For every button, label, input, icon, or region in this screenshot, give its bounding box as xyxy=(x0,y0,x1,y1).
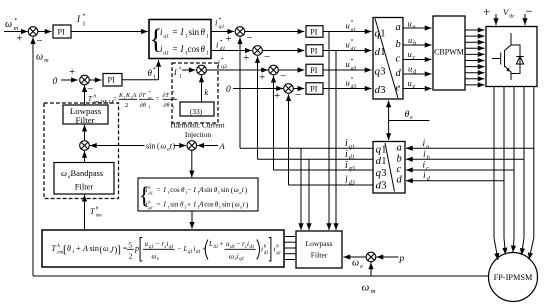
svg-text:h: h xyxy=(96,207,99,212)
svg-text:k: k xyxy=(205,87,209,97)
wire PI5 to dq block xyxy=(323,69,372,71)
svg-text:i: i xyxy=(345,149,348,160)
node omega_e label xyxy=(352,258,363,270)
wire bus line 3 LPF2 to EQT xyxy=(284,247,296,249)
label T1 d3 xyxy=(375,84,386,96)
svg-text:q1: q1 xyxy=(351,27,357,33)
svg-text:1: 1 xyxy=(83,22,86,28)
wire p to M4 xyxy=(377,256,399,258)
svg-text:*: * xyxy=(153,67,156,73)
svg-text:i: i xyxy=(345,174,348,185)
wire J5 to PI2 xyxy=(89,79,101,81)
svg-text:(33): (33) xyxy=(190,107,203,116)
wire omega_e to LPF2 xyxy=(344,256,367,258)
wire M2 down to EQH block xyxy=(191,150,193,177)
wire iq1 branch down to LPF2 xyxy=(300,148,302,230)
fraction2 numerator xyxy=(139,90,152,100)
svg-text:1: 1 xyxy=(380,29,385,40)
text EQT equation xyxy=(52,240,255,262)
svg-text:p: p xyxy=(134,244,139,253)
dashed box harmonic current injection xyxy=(172,63,218,123)
wire phase line x=494 xyxy=(494,87,498,261)
svg-text:CBPWM: CBPWM xyxy=(434,48,464,57)
svg-text:I: I xyxy=(163,201,167,209)
svg-text:*: * xyxy=(83,14,86,20)
wire ud1* branch down to LPF2 xyxy=(335,51,337,231)
wire gate signal 7 xyxy=(465,66,485,68)
wire uc to CBPWM xyxy=(403,59,432,61)
wire J2 d1 to PI xyxy=(262,50,304,52)
svg-text:cos: cos xyxy=(188,44,200,54)
svg-text:c: c xyxy=(396,54,401,65)
svg-text:+: + xyxy=(187,201,191,209)
wire J1 q1 to PI xyxy=(245,31,305,33)
block EQH harmonic current equations xyxy=(138,178,258,211)
wire phase line x=533.8 xyxy=(529,87,534,260)
svg-text:c: c xyxy=(397,164,402,175)
svg-text:1: 1 xyxy=(381,145,386,156)
summing junction J0 (speed error) xyxy=(28,27,38,37)
block Lowpass Filter 2 xyxy=(296,231,342,268)
wire J4 d3 to PI xyxy=(293,88,304,90)
fraction3 bar xyxy=(163,98,178,100)
svg-text:u: u xyxy=(346,21,350,31)
svg-text:e: e xyxy=(360,264,363,270)
svg-text:em: em xyxy=(96,214,102,219)
svg-text:1: 1 xyxy=(380,47,385,58)
svg-text:I: I xyxy=(173,68,177,77)
svg-text:I: I xyxy=(193,186,197,194)
wire 0 to J5 xyxy=(61,79,78,81)
fraction3 numerator xyxy=(163,90,176,100)
wire PI2 output horizontal xyxy=(122,79,159,81)
svg-text:=: = xyxy=(123,244,128,253)
svg-text:d1: d1 xyxy=(220,46,226,52)
svg-text:=: = xyxy=(156,95,160,103)
fraction2 denominator xyxy=(140,102,151,110)
svg-text:+: + xyxy=(76,244,81,253)
wire bus line 1 LPF2 to EQT xyxy=(284,236,296,238)
svg-text:PI: PI xyxy=(310,66,317,75)
wire bus line 2 LPF2 to EQT xyxy=(284,241,296,243)
svg-text:L: L xyxy=(183,245,188,253)
svg-text:h: h xyxy=(264,245,267,250)
label Bandpass line1 xyxy=(61,168,103,180)
label Tem_h xyxy=(90,207,102,219)
wire J0 to PI1 xyxy=(38,31,52,33)
node iq3 label xyxy=(345,160,355,172)
label T2 q3 xyxy=(376,167,387,179)
svg-text:+: + xyxy=(259,72,265,84)
svg-text:Lowpass: Lowpass xyxy=(306,239,333,248)
svg-text:Filter: Filter xyxy=(75,182,94,192)
svg-text:q1: q1 xyxy=(349,145,355,151)
svg-text:Filter: Filter xyxy=(75,115,94,125)
svg-text:*: * xyxy=(351,77,354,83)
svg-text:q1: q1 xyxy=(239,257,244,262)
svg-text:I: I xyxy=(193,201,197,209)
svg-text:3: 3 xyxy=(381,181,386,192)
stub theta_e into T2 xyxy=(388,136,390,141)
wire sin signal to M1 xyxy=(90,145,145,147)
svg-text:ω: ω xyxy=(61,168,67,178)
svg-text:I: I xyxy=(180,44,185,54)
svg-text:q1: q1 xyxy=(219,24,225,30)
wire PI6 to dq block xyxy=(323,88,372,90)
svg-text:−: − xyxy=(295,89,301,101)
svg-text:q1: q1 xyxy=(163,33,169,39)
block PI current controller 4 xyxy=(306,83,323,95)
wire id1 branch down to LPF2 xyxy=(308,159,310,230)
text EQ1 line1 xyxy=(160,27,209,39)
svg-text:1: 1 xyxy=(149,105,151,110)
wire uq1* branch down to LPF2 xyxy=(328,32,330,231)
theta_e underline xyxy=(389,120,430,122)
svg-text:i: i xyxy=(423,161,426,171)
svg-text:θ: θ xyxy=(201,44,206,54)
svg-text:b: b xyxy=(413,41,416,47)
svg-text:1: 1 xyxy=(206,33,209,39)
svg-text:d1: d1 xyxy=(349,155,355,161)
node id1* label xyxy=(216,39,225,52)
svg-text:∂θ: ∂θ xyxy=(164,102,170,109)
svg-text:b: b xyxy=(427,155,430,161)
machine FP-IPMSM motor xyxy=(489,253,538,302)
fraction1 bar xyxy=(119,98,138,100)
svg-text:d: d xyxy=(396,68,402,79)
svg-text:FP-IPMSM: FP-IPMSM xyxy=(494,273,533,282)
svg-text:u: u xyxy=(346,78,350,88)
svg-text:PI: PI xyxy=(310,28,317,37)
dashed box demodulation xyxy=(44,103,119,199)
svg-text:ω: ω xyxy=(36,52,43,63)
node ud1* label xyxy=(346,39,357,53)
svg-text:sin: sin xyxy=(221,186,230,194)
wire iq1* to J1 xyxy=(211,31,234,33)
svg-text:+: + xyxy=(220,240,224,248)
svg-text:i: i xyxy=(261,246,263,254)
node omega_m feedback label xyxy=(36,52,49,65)
svg-text:θ: θ xyxy=(148,68,153,78)
wire id1 row xyxy=(258,158,374,160)
EQT big bracket left xyxy=(140,238,142,262)
svg-text:u: u xyxy=(408,19,412,29)
wire ua to CBPWM xyxy=(403,27,432,29)
wire omega_m to M4 xyxy=(370,263,372,277)
svg-text:sin: sin xyxy=(146,142,155,151)
svg-text:Injection: Injection xyxy=(185,130,212,139)
label fraction1 numerator KtKsA xyxy=(118,93,137,100)
svg-text:h: h xyxy=(94,95,97,100)
svg-text:i: i xyxy=(146,201,148,209)
EQT 5/2 bar xyxy=(127,248,134,250)
wire omega_m feedback bottom xyxy=(33,275,489,277)
svg-text:i: i xyxy=(274,246,276,254)
node id label xyxy=(423,171,431,182)
diagonal T1 xyxy=(375,19,398,99)
wire M1 to LPF1 xyxy=(84,125,86,141)
svg-text:): ) xyxy=(245,186,248,195)
wire iq3 feedback riser to J3 xyxy=(273,76,275,170)
node ia label xyxy=(423,139,430,150)
svg-text:*: * xyxy=(351,20,354,26)
wire I1* to M3 xyxy=(182,69,196,71)
svg-text:−: − xyxy=(526,4,533,19)
wire theta_e double arrow xyxy=(388,101,390,141)
svg-text:+: + xyxy=(483,4,490,19)
svg-text:A: A xyxy=(82,244,88,253)
wire A to M2 xyxy=(197,145,218,147)
svg-text:=: = xyxy=(173,44,178,54)
svg-text:d: d xyxy=(427,176,431,182)
svg-text:2: 2 xyxy=(129,252,133,261)
svg-text:i: i xyxy=(345,138,348,149)
wire DC+ into inverter xyxy=(495,14,497,25)
svg-text:1: 1 xyxy=(72,250,75,255)
block PI1 speed controller xyxy=(53,25,71,38)
svg-text:A: A xyxy=(132,93,137,99)
wire gate signal 2 xyxy=(465,35,485,37)
svg-text:c: c xyxy=(426,166,429,172)
svg-text:sin: sin xyxy=(189,27,200,37)
svg-text:=: = xyxy=(157,186,161,194)
svg-text:L: L xyxy=(208,240,213,248)
EQT big paren left xyxy=(205,240,208,260)
wire ia tap to T2 xyxy=(406,147,534,149)
svg-text:dc: dc xyxy=(509,13,515,19)
svg-text:I: I xyxy=(76,14,81,24)
svg-text:=: = xyxy=(113,95,117,103)
svg-text:−: − xyxy=(37,35,43,47)
block Bandpass Filter xyxy=(54,163,114,195)
svg-text:a: a xyxy=(397,142,402,153)
svg-text:−: − xyxy=(87,84,93,96)
svg-text:sin: sin xyxy=(170,201,179,209)
svg-text:i: i xyxy=(216,40,219,50)
multiplier M4 pole pairs xyxy=(366,252,376,262)
wire DC- into inverter xyxy=(524,14,526,25)
svg-text:T: T xyxy=(52,244,57,253)
node uq1* label xyxy=(346,20,357,34)
wire iq3* to J3 xyxy=(206,69,268,71)
svg-text:ω: ω xyxy=(234,186,239,194)
svg-text:p: p xyxy=(399,254,405,264)
svg-text:q1: q1 xyxy=(148,205,153,210)
svg-text:d3: d3 xyxy=(349,181,355,187)
wire iq1 row xyxy=(240,147,373,149)
svg-text:−: − xyxy=(188,186,192,194)
svg-text:=: = xyxy=(173,27,178,37)
block T1 dq to abcde transform xyxy=(373,18,403,100)
svg-text:cos: cos xyxy=(170,186,180,194)
wire gate signal 5 xyxy=(465,53,485,55)
node I1* label (injection) xyxy=(173,67,182,80)
svg-text:ω: ω xyxy=(5,19,12,30)
svg-text:): ) xyxy=(246,200,249,209)
wire PI4 to dq block xyxy=(323,50,372,52)
svg-text:q3: q3 xyxy=(349,166,355,172)
svg-text:q3: q3 xyxy=(351,66,357,72)
transistor IGBT symbol xyxy=(492,33,511,80)
svg-text:i: i xyxy=(215,18,218,28)
wire theta1* riser into EQ1 xyxy=(158,60,160,80)
wire ud to CBPWM xyxy=(403,73,432,75)
wire ib tap to T2 xyxy=(406,158,524,160)
wire (33) to M3 xyxy=(201,76,203,103)
svg-text:u: u xyxy=(346,59,350,69)
EQT big paren right xyxy=(257,240,260,260)
svg-text:sin: sin xyxy=(90,244,99,253)
text EQH line2 xyxy=(146,199,249,210)
node Vdc label xyxy=(503,7,515,19)
node iq1 label xyxy=(345,138,355,151)
svg-text:h: h xyxy=(148,185,151,190)
svg-text:0: 0 xyxy=(53,77,58,87)
svg-text:−: − xyxy=(156,240,160,248)
node I1* label xyxy=(76,14,86,28)
wire gate signal 9 xyxy=(465,78,485,80)
summing junction J1 q1 xyxy=(235,27,245,37)
wire PI1 output I1* to eq block xyxy=(71,31,148,33)
svg-text:−: − xyxy=(247,32,253,44)
svg-text:1: 1 xyxy=(153,75,156,81)
svg-text:d1: d1 xyxy=(351,46,357,52)
wire id tap to T2 xyxy=(406,180,504,182)
svg-text:u: u xyxy=(408,49,412,59)
svg-text:ω: ω xyxy=(235,201,240,209)
summing junction J4 d3 xyxy=(284,84,294,94)
node ib label xyxy=(423,150,430,161)
node omega_m* label xyxy=(5,18,19,32)
EQT i_d1^h xyxy=(261,245,268,257)
block T2 abcd to dq transform xyxy=(373,142,405,194)
svg-text:*: * xyxy=(14,18,17,24)
multiplier M1 demod xyxy=(80,141,90,151)
svg-text:+: + xyxy=(274,90,280,102)
node uc label xyxy=(408,49,416,61)
svg-text:ω: ω xyxy=(229,253,234,261)
svg-text:5: 5 xyxy=(128,241,132,250)
svg-text:d1: d1 xyxy=(163,50,169,56)
svg-text:m: m xyxy=(44,58,49,64)
svg-text:−: − xyxy=(178,245,182,253)
wire gate signal 6 xyxy=(465,60,485,62)
wire iq1 feedback riser to J1 xyxy=(239,37,241,148)
svg-text:I: I xyxy=(163,186,167,194)
svg-text:∂T: ∂T xyxy=(139,92,146,99)
svg-text:2: 2 xyxy=(125,102,128,109)
svg-text:sin: sin xyxy=(222,201,231,209)
svg-text:*: * xyxy=(219,17,222,23)
wire gate signal 3 xyxy=(465,41,485,43)
wire gate signal 1 xyxy=(465,29,485,31)
svg-text:d1: d1 xyxy=(214,245,219,250)
wire PI3 to dq block xyxy=(323,31,372,33)
svg-text:ω: ω xyxy=(152,253,157,261)
wire id1 feedback riser to J2 xyxy=(257,56,259,159)
svg-text:i: i xyxy=(146,186,148,194)
svg-text:h: h xyxy=(58,244,61,249)
svg-text:∂T: ∂T xyxy=(163,92,170,99)
block PI2 angle controller xyxy=(103,74,122,87)
node ub label xyxy=(408,35,416,47)
summing junction J2 d1 xyxy=(253,46,263,56)
svg-text:ω: ω xyxy=(352,258,359,269)
svg-text:0: 0 xyxy=(226,85,231,95)
svg-text:d1: d1 xyxy=(148,191,153,196)
svg-text:h: h xyxy=(276,245,279,250)
label T2 d1 xyxy=(376,155,387,167)
EQT big bracket right xyxy=(269,238,271,262)
node ud3* label xyxy=(346,77,357,91)
svg-text:b: b xyxy=(396,39,401,50)
svg-text:+: + xyxy=(17,33,23,45)
svg-text:+: + xyxy=(226,33,232,45)
block Lowpass Filter (demod) xyxy=(63,105,108,124)
svg-text:A: A xyxy=(219,141,226,151)
node omega_m bottom label xyxy=(362,282,376,296)
node id1 label xyxy=(345,149,355,161)
svg-text:ω: ω xyxy=(103,244,109,253)
svg-text:i: i xyxy=(423,171,426,181)
svg-text:b: b xyxy=(397,153,402,164)
svg-text:θ: θ xyxy=(405,109,410,120)
block inverter xyxy=(486,27,537,87)
block PI current controller 2 xyxy=(306,45,323,57)
svg-text:u: u xyxy=(346,40,350,50)
label T2 q1 xyxy=(376,144,387,156)
EQT i_q1^h xyxy=(274,245,281,257)
svg-text:PI: PI xyxy=(310,47,317,56)
svg-text:d1: d1 xyxy=(196,250,201,255)
node ic label xyxy=(423,161,430,172)
svg-text:m: m xyxy=(14,26,19,32)
label T1 q1 xyxy=(375,28,386,40)
svg-text:i: i xyxy=(218,58,221,68)
svg-text:c: c xyxy=(413,55,416,61)
diode freewheel xyxy=(511,45,524,74)
svg-text:1: 1 xyxy=(381,156,386,167)
svg-text:*: * xyxy=(221,57,224,63)
svg-text:q1: q1 xyxy=(188,250,193,255)
svg-text:m: m xyxy=(371,288,376,295)
svg-text:θ: θ xyxy=(201,27,206,37)
wire Bandpass to M1 xyxy=(84,151,86,163)
svg-text:sin: sin xyxy=(204,186,213,194)
svg-text:d: d xyxy=(397,175,403,186)
svg-text:Bandpass: Bandpass xyxy=(71,168,104,178)
wire ue to CBPWM xyxy=(403,88,432,90)
wire sin to M2 xyxy=(174,145,187,147)
svg-text:T: T xyxy=(88,95,93,103)
EQT fraction1 bar xyxy=(143,248,175,250)
svg-text:a: a xyxy=(426,144,429,150)
svg-text:u: u xyxy=(408,35,412,45)
svg-text:3: 3 xyxy=(380,85,385,96)
svg-text:u: u xyxy=(408,64,412,74)
svg-text:q3: q3 xyxy=(221,64,227,70)
wire id3 row xyxy=(289,184,374,186)
node theta_e label xyxy=(405,109,414,121)
svg-text:e: e xyxy=(413,84,416,90)
svg-text:∂θ: ∂θ xyxy=(140,102,146,109)
svg-text:−: − xyxy=(237,240,241,248)
wire omega_m* input xyxy=(4,31,28,33)
wire bus line 5 LPF2 to EQT xyxy=(284,259,296,261)
svg-text:cos: cos xyxy=(204,201,214,209)
svg-text:*: * xyxy=(351,58,354,64)
svg-text:1: 1 xyxy=(206,50,209,56)
